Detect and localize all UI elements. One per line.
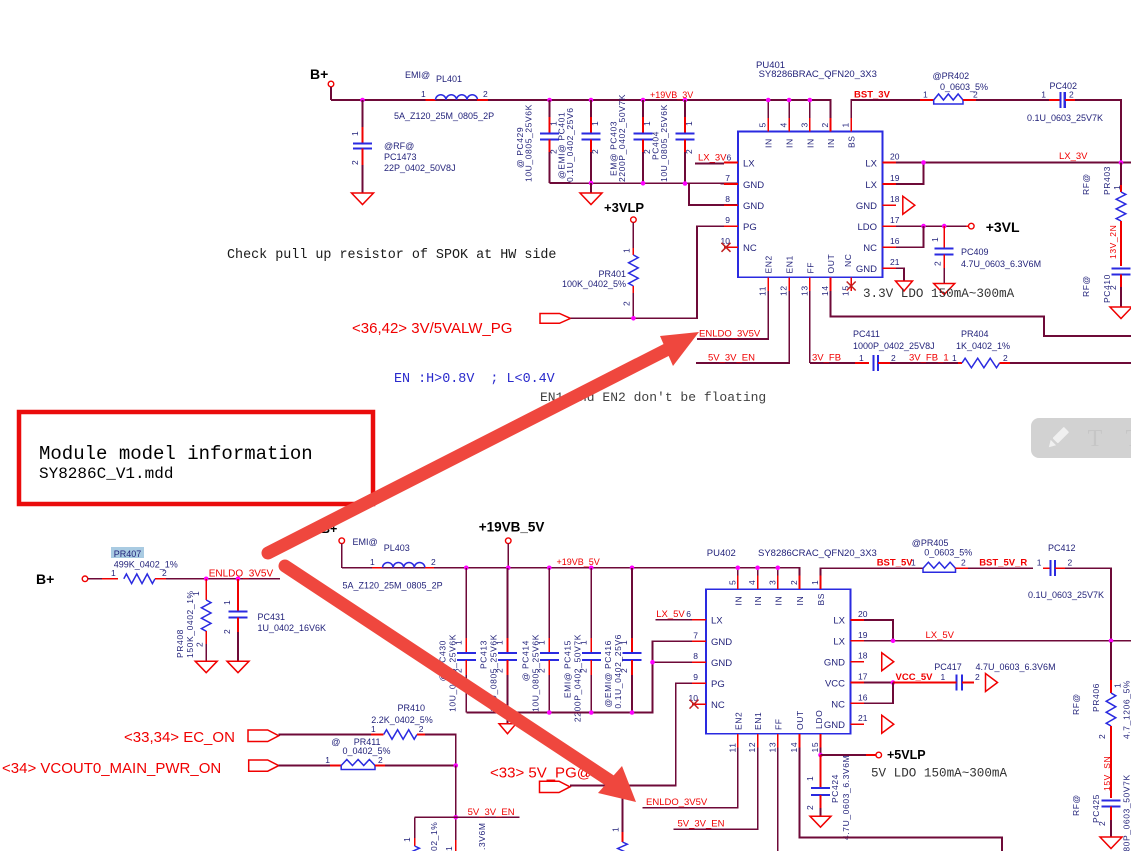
net 5V_3V_EN stub [456, 807, 520, 818]
wire 3V/5VALW_PG to PG pin [571, 226, 739, 318]
svg-text:OUT: OUT [795, 710, 805, 730]
svg-text:14: 14 [820, 285, 830, 296]
svg-text:13: 13 [799, 285, 809, 296]
svg-text:<34> VCOUT0_MAIN_PWR_ON: <34> VCOUT0_MAIN_PWR_ON [2, 760, 221, 777]
PU402 left pin stubs [692, 620, 706, 704]
capacitor PC417 [930, 662, 1056, 691]
capacitor PC409 [930, 226, 1041, 283]
svg-text:3V_FB: 3V_FB [812, 353, 841, 364]
svg-text:2: 2 [431, 557, 436, 567]
svg-text:100K_0402_5%: 100K_0402_5% [562, 279, 626, 289]
ground under PC425 [1100, 837, 1122, 849]
svg-text:NC: NC [743, 243, 757, 254]
svg-text:IN: IN [805, 138, 815, 148]
junction dots on +19VB_3V rail [360, 98, 812, 103]
EN2 pin11 wire to ENLDO_3V5V (PU402) [643, 748, 738, 809]
annotation 5V LDO [871, 767, 1007, 781]
svg-text:2: 2 [961, 558, 966, 568]
svg-text:IN: IN [826, 138, 836, 148]
svg-text:EMI@ PC415: EMI@ PC415 [562, 640, 572, 698]
svg-text:2: 2 [1068, 558, 1073, 568]
svg-text:1: 1 [923, 90, 928, 100]
FF pin13 wire (PU402) [777, 748, 779, 852]
capacitor PC411 [853, 329, 935, 371]
svg-text:LX: LX [865, 180, 877, 191]
svg-text:1: 1 [421, 89, 426, 99]
svg-text:12: 12 [747, 742, 757, 753]
svg-text:5V LDO 150mA~300mA: 5V LDO 150mA~300mA [871, 767, 1007, 781]
svg-text:2: 2 [162, 568, 167, 578]
svg-text:+3VL: +3VL [986, 219, 1020, 235]
wire LX pins 20/19 to LX_5V net [864, 620, 1131, 641]
PU401 left pin numbers [721, 173, 731, 246]
OUT pin14 wire (PU402) [800, 748, 1003, 852]
svg-text:GND: GND [824, 658, 845, 669]
wire PC402 down to LX_3V node [1075, 100, 1121, 163]
svg-text:B+: B+ [310, 66, 328, 82]
pin1 label of cut component [444, 840, 456, 851]
svg-text:PG: PG [743, 222, 757, 233]
svg-text:19: 19 [858, 630, 868, 640]
svg-text:PC424: PC424 [830, 774, 840, 803]
svg-text:SY8286CRAC_QFN20_3X3: SY8286CRAC_QFN20_3X3 [758, 548, 877, 559]
svg-text:1: 1 [350, 131, 360, 136]
pull resistor on 5V_PG at bottom edge [611, 786, 628, 856]
svg-text:Module model information: Module model information [39, 443, 313, 465]
PU401 right pin numbers [890, 152, 900, 268]
svg-text:2: 2 [195, 642, 205, 647]
svg-text:NC: NC [863, 243, 877, 254]
ground bus under top capacitors [550, 183, 739, 205]
svg-text:LX: LX [865, 159, 877, 170]
floating toolbar with pencil and text icons [1031, 418, 1131, 458]
svg-text:@RF@: @RF@ [384, 141, 414, 151]
PU401 bottom pin labels EN2 EN1 FF OUT [764, 254, 836, 274]
svg-text:EN2: EN2 [764, 255, 774, 273]
svg-text:PR408: PR408 [175, 629, 185, 658]
junction dots +19VB_5V rail [464, 566, 780, 571]
svg-text:0.1U_0603_25V7K: 0.1U_0603_25V7K [1027, 113, 1103, 123]
svg-text:1: 1 [611, 827, 621, 832]
NC pin 16 wire [896, 226, 924, 247]
resistor PR407 with highlight [102, 547, 178, 584]
GND pin 21 arrow (PU402) [882, 715, 894, 733]
svg-text:6: 6 [686, 609, 691, 619]
svg-text:<36,42> 3V/5VALW_PG: <36,42> 3V/5VALW_PG [352, 320, 512, 337]
ground under bottom bus [499, 713, 516, 734]
junction dot PR401/PG wire [631, 316, 636, 321]
svg-text:1: 1 [684, 121, 694, 126]
wire PC412 down to LX_5V node [1065, 568, 1111, 641]
svg-text:GND: GND [856, 264, 877, 275]
red annotation arrow 1 [268, 332, 699, 553]
svg-text:IN: IN [795, 596, 805, 606]
svg-text:LX: LX [833, 637, 845, 648]
svg-text:LX_3V: LX_3V [698, 153, 727, 164]
PU402 right pin stubs [851, 620, 865, 724]
svg-text:IN: IN [753, 596, 763, 606]
resistor at bottom edge (cut) [402, 822, 439, 856]
svg-text:@PR402: @PR402 [933, 71, 970, 81]
svg-text:RF@: RF@ [1081, 173, 1091, 195]
svg-text:14: 14 [789, 742, 799, 753]
PU402 right pin numbers [858, 609, 868, 723]
svg-text:4.7U_0603_6.3V6M: 4.7U_0603_6.3V6M [976, 662, 1056, 672]
PU401 left pin stubs [724, 163, 738, 248]
svg-text:PC431: PC431 [258, 612, 286, 622]
svg-text:2: 2 [891, 353, 896, 363]
PU402 top pin stubs and numbers 5 4 3 2 1 [727, 576, 826, 606]
resistor @PR402 0 ohm [920, 71, 988, 104]
svg-text:PG: PG [711, 679, 725, 690]
svg-text:GND: GND [743, 180, 764, 191]
svg-text:3: 3 [767, 580, 777, 585]
ground under PC410 [1110, 307, 1131, 319]
svg-text:FF: FF [805, 262, 815, 274]
net ENLDO_3V5V wire [166, 569, 280, 580]
annotation EN1 EN2 floating [540, 390, 766, 405]
svg-text:LX: LX [833, 616, 845, 627]
ground bus under bottom capacitors [466, 641, 706, 712]
PU402 left pin numbers [689, 630, 699, 703]
svg-text:BS: BS [816, 593, 826, 606]
svg-text:PC412: PC412 [1048, 543, 1076, 553]
svg-text:0_0603_5%: 0_0603_5% [940, 82, 988, 92]
net label LX_5V [926, 630, 955, 641]
svg-text:2: 2 [350, 160, 360, 165]
svg-text:+5VLP: +5VLP [887, 748, 926, 762]
svg-text:10U_0805_25V6K: 10U_0805_25V6K [530, 634, 540, 712]
svg-text:IN: IN [764, 138, 774, 148]
junction dot LX_3V right column [1119, 160, 1124, 165]
net label 3V_FB_1 [890, 353, 958, 364]
svg-text:2: 2 [483, 89, 488, 99]
svg-text:EN2: EN2 [733, 712, 743, 730]
svg-text:RF@: RF@ [1081, 275, 1091, 297]
svg-text:1: 1 [911, 558, 916, 568]
svg-text:GND: GND [856, 201, 877, 212]
junction dot LX_5V right column [1109, 638, 1114, 643]
svg-text:RF@: RF@ [1071, 794, 1081, 816]
svg-text:@PR405: @PR405 [912, 538, 949, 548]
svg-text:499K_0402_1%: 499K_0402_1% [114, 560, 178, 570]
svg-text:3V_FB_1: 3V_FB_1 [909, 353, 949, 364]
ground under PR408 [195, 661, 217, 673]
capacitor PC1473 [350, 100, 456, 193]
svg-text:1: 1 [1112, 185, 1122, 190]
svg-text:1: 1 [930, 237, 940, 242]
junction dot VCOUT node [453, 763, 458, 768]
svg-text:0.1U_0402_25V6: 0.1U_0402_25V6 [565, 107, 575, 182]
svg-text:PL401: PL401 [436, 74, 462, 84]
svg-text:0_0603_5%: 0_0603_5% [924, 548, 972, 558]
svg-text:0_0402_5%: 0_0402_5% [343, 746, 391, 756]
svg-text:BST_5V: BST_5V [877, 558, 914, 569]
junction dot LX pin19 [891, 638, 896, 643]
svg-text:2.2K_0402_5%: 2.2K_0402_5% [371, 715, 433, 725]
svg-text:PC411: PC411 [853, 329, 880, 339]
svg-text:OUT: OUT [826, 254, 836, 274]
off-page connector 5V_PG [490, 765, 592, 793]
capacitor PC425 [1071, 774, 1131, 856]
arrow terminator after PC417 [986, 674, 998, 692]
svg-text:1: 1 [642, 121, 652, 126]
PU401 right pin stubs [883, 163, 897, 269]
svg-text:2200P_0402_50V7K: 2200P_0402_50V7K [572, 634, 582, 722]
svg-text:2: 2 [789, 580, 799, 585]
svg-text:2: 2 [590, 149, 600, 154]
svg-text:1U_0402_16V6K: 1U_0402_16V6K [258, 623, 327, 633]
svg-text:LX_5V: LX_5V [656, 609, 685, 620]
svg-text:16: 16 [890, 236, 900, 246]
svg-text:1: 1 [402, 837, 412, 842]
svg-text:NC: NC [831, 699, 845, 710]
svg-text:22P_0402_50V8J: 22P_0402_50V8J [384, 163, 456, 173]
svg-text:1K_0402_1%: 1K_0402_1% [956, 341, 1010, 351]
wire PR410 to EC_ON node [425, 735, 456, 766]
svg-text:13V_2N: 13V_2N [1108, 225, 1118, 259]
svg-text:10U_0805_25V6K: 10U_0805_25V6K [524, 104, 534, 182]
svg-text:2: 2 [622, 301, 632, 306]
junction dots on bottom ground bus [547, 660, 655, 715]
svg-text:4: 4 [747, 580, 757, 585]
svg-text:7: 7 [693, 630, 698, 640]
resistor PR408 [175, 579, 211, 661]
svg-text:4.7U_0603_6.3V6M: 4.7U_0603_6.3V6M [961, 259, 1041, 269]
off-page connector VCOUT0_MAIN_PWR_ON [2, 760, 279, 777]
junction dots on top ground bus [589, 181, 688, 186]
svg-text:PC417: PC417 [934, 662, 962, 672]
svg-text:1: 1 [590, 121, 600, 126]
svg-text:0.1U_0402_25V6: 0.1U_0402_25V6 [613, 634, 623, 709]
svg-text:B+: B+ [36, 571, 54, 587]
value label of cut capacitor [477, 822, 487, 856]
op-amp U2 PU402 SY8286CRAC_QFN20_3X3 body [706, 548, 877, 734]
svg-text:T: T [1126, 426, 1131, 452]
svg-text:8: 8 [693, 651, 698, 661]
svg-text:4.7U_0603_6.3V6M: 4.7U_0603_6.3V6M [841, 755, 851, 840]
capacitor PC416 [603, 568, 642, 713]
svg-text:GND: GND [711, 637, 732, 648]
svg-text:5A_Z120_25M_0805_2P: 5A_Z120_25M_0805_2P [343, 581, 443, 591]
capacitor PC401 [557, 100, 601, 183]
svg-text:02_1%: 02_1% [429, 822, 439, 851]
svg-text:2: 2 [1003, 353, 1008, 363]
svg-text:1: 1 [111, 568, 116, 578]
svg-text:7: 7 [725, 173, 730, 183]
svg-text:PR407: PR407 [114, 549, 142, 559]
LDO pin 17 wire to +3VL [896, 219, 1020, 235]
power terminal B+ (left) [36, 571, 102, 587]
svg-text:PU402: PU402 [707, 548, 736, 559]
module information red box [19, 412, 373, 504]
off-page connector 3V/5VALW_PG [352, 314, 571, 338]
capacitor PC415 [562, 568, 601, 722]
wire LX pins 20/19 to LX_3V net [896, 163, 1131, 185]
svg-text:17: 17 [890, 215, 900, 225]
svg-text:16: 16 [858, 692, 868, 702]
svg-text:20: 20 [858, 609, 868, 619]
net label 13V_2N [1108, 225, 1121, 266]
svg-text:5: 5 [758, 122, 768, 127]
off-page connector EC_ON [124, 729, 279, 746]
annotation 3.3V LDO [863, 287, 1015, 301]
svg-text:PR410: PR410 [398, 703, 426, 713]
svg-text:2: 2 [684, 149, 694, 154]
svg-text:13: 13 [767, 742, 777, 753]
svg-text:GND: GND [711, 658, 732, 669]
svg-text:LX_5V: LX_5V [926, 630, 955, 641]
OUT pin14 feedback wire [831, 291, 1131, 336]
svg-text:3: 3 [799, 122, 809, 127]
wire PR402 to PC402 [976, 99, 1049, 101]
svg-text:EMI@: EMI@ [353, 537, 378, 547]
svg-text:SY8286C_V1.mdd: SY8286C_V1.mdd [39, 465, 173, 483]
svg-text:1: 1 [371, 724, 376, 734]
resistor PR410 [279, 703, 433, 739]
EN2 pin11 wire to ENLDO_3V5V [697, 291, 768, 340]
svg-text:IN: IN [785, 138, 795, 148]
svg-text:2: 2 [1108, 285, 1118, 290]
junction dot LX pin20 [921, 160, 926, 165]
GND pin 18 arrow [903, 196, 915, 214]
svg-text:PL403: PL403 [384, 543, 410, 553]
svg-text:VCC: VCC [825, 679, 845, 690]
wires rail to pins 5 4 3 [768, 100, 810, 118]
svg-text:BS: BS [847, 135, 857, 148]
svg-text:150K_0402_1%: 150K_0402_1% [185, 590, 195, 658]
svg-text:1: 1 [622, 248, 632, 253]
capacitor PC410 [1081, 269, 1131, 308]
svg-text:5V_3V_EN: 5V_3V_EN [468, 807, 515, 818]
svg-text:T: T [1088, 426, 1103, 452]
svg-text:21: 21 [858, 713, 868, 723]
svg-text:5: 5 [727, 580, 737, 585]
PU401 left pin labels [743, 159, 764, 255]
svg-text:9: 9 [693, 672, 698, 682]
capacitor PC414 [520, 568, 559, 713]
svg-text:LDO: LDO [857, 222, 877, 233]
svg-text:ENLDO_3V5V: ENLDO_3V5V [699, 329, 761, 340]
svg-text:ENLDO_3V5V: ENLDO_3V5V [646, 797, 708, 808]
PU401 bottom pin stubs and numbers 11-15 [758, 277, 856, 296]
svg-text:IN: IN [733, 596, 743, 606]
EN1 pin12 wire to 5V_3V_EN [696, 291, 789, 364]
svg-text:1: 1 [222, 600, 232, 605]
svg-text:2: 2 [1069, 90, 1074, 100]
net BST_3V wire pin1 [851, 90, 920, 119]
capacitor PC404 [651, 100, 695, 183]
PU402 right pin labels [814, 616, 846, 731]
svg-text:5A_Z120_25M_0805_2P: 5A_Z120_25M_0805_2P [394, 111, 494, 121]
svg-text:+19VB_5V: +19VB_5V [479, 520, 545, 535]
svg-text:5V_3V_EN: 5V_3V_EN [678, 819, 725, 830]
svg-text:8: 8 [725, 194, 730, 204]
ground under PC424 [810, 816, 831, 827]
svg-text:FF: FF [773, 718, 783, 730]
svg-text:2: 2 [1097, 821, 1107, 826]
svg-text:12: 12 [779, 285, 789, 296]
op-amp U1 PU401 SY8286BRAC_QFN20_3X3 body [738, 60, 883, 277]
svg-text:11: 11 [758, 286, 768, 296]
svg-text:2: 2 [222, 629, 232, 634]
svg-text:ENLDO_3V5V: ENLDO_3V5V [209, 569, 274, 580]
svg-text:Check pull up resistor of SPOK: Check pull up resistor of SPOK at HW sid… [227, 248, 556, 263]
net BST_5V wire pin1 (PU402) [821, 558, 917, 576]
svg-text:LX: LX [711, 616, 723, 627]
inductor PL403 [343, 537, 443, 591]
power terminal B+ (bottom circuit) [321, 522, 345, 568]
svg-text:1: 1 [941, 672, 946, 682]
svg-text:GND: GND [824, 720, 845, 731]
svg-text:3.3V LDO 150mA~300mA: 3.3V LDO 150mA~300mA [863, 287, 1015, 301]
svg-text:4: 4 [779, 122, 789, 127]
svg-text:NC: NC [843, 254, 853, 267]
resistor PR404 [952, 329, 1131, 368]
ground under PC431 [227, 661, 249, 673]
EN1 pin12 wire to 5V_3V_EN (PU402) [674, 748, 758, 830]
capacitor PC430 [437, 568, 476, 713]
net label +19VB_3V [650, 90, 693, 100]
svg-text:2200P_0402_50V7K: 2200P_0402_50V7K [617, 94, 627, 182]
svg-text:PC409: PC409 [961, 247, 989, 257]
svg-text:1: 1 [841, 122, 851, 127]
svg-text:2: 2 [933, 261, 943, 266]
svg-text:10U_0805_25V6K: 10U_0805_25V6K [659, 104, 669, 182]
svg-text:1: 1 [810, 580, 820, 585]
svg-text:SY8286BRAC_QFN20_3X3: SY8286BRAC_QFN20_3X3 [759, 69, 877, 80]
pin 10 no-connect X (PU402) [690, 700, 699, 709]
capacitor PC413 [479, 568, 518, 713]
net label +19VB_5V [557, 557, 600, 567]
svg-text:0.1U_0603_25V7K: 0.1U_0603_25V7K [1028, 590, 1104, 600]
junction dot 5V_3V_EN node [453, 815, 458, 820]
ground under PC409 [934, 284, 955, 295]
svg-text:6: 6 [727, 153, 732, 163]
net LX_5V to pin 6 [656, 609, 693, 620]
svg-text:1: 1 [444, 846, 454, 851]
svg-text:@EMI@ PC416: @EMI@ PC416 [603, 640, 613, 707]
PU402 bottom pin labels EN2 EN1 FF OUT [733, 710, 805, 730]
wire 5V_PG to PG pin (PU402) [570, 683, 692, 785]
svg-text:+19VB_3V: +19VB_3V [650, 90, 693, 100]
svg-text:18: 18 [890, 194, 900, 204]
power terminal B+ (top circuit) [310, 66, 334, 100]
svg-text:PC425: PC425 [1091, 794, 1101, 823]
svg-text:BST_5V_R: BST_5V_R [979, 558, 1027, 569]
svg-text:NC: NC [711, 700, 725, 711]
svg-text:IN: IN [773, 596, 783, 606]
svg-text:LDO: LDO [814, 710, 824, 729]
net LX_3V6 to pin 6 [695, 153, 732, 164]
resistor PR403 [1081, 163, 1126, 236]
annotation EN threshold [394, 372, 555, 387]
svg-text:1000P_0402_25V8J: 1000P_0402_25V8J [853, 341, 935, 351]
capacitor PC429 [515, 100, 559, 183]
net label LX_3V [1059, 151, 1088, 162]
capacitor PC424 [805, 755, 851, 840]
svg-text:PR406: PR406 [1091, 683, 1101, 712]
svg-text:1: 1 [325, 755, 330, 765]
svg-text:19: 19 [890, 173, 900, 183]
capacitor PC412 [1028, 543, 1104, 600]
PU402 bottom pin stubs and numbers 11-15 [727, 734, 820, 753]
svg-text:PC1473: PC1473 [384, 152, 417, 162]
svg-text:5V_3V_EN: 5V_3V_EN [708, 353, 755, 364]
svg-text:1: 1 [370, 557, 375, 567]
svg-text:GND: GND [743, 201, 764, 212]
resistor PR401 [562, 248, 638, 319]
